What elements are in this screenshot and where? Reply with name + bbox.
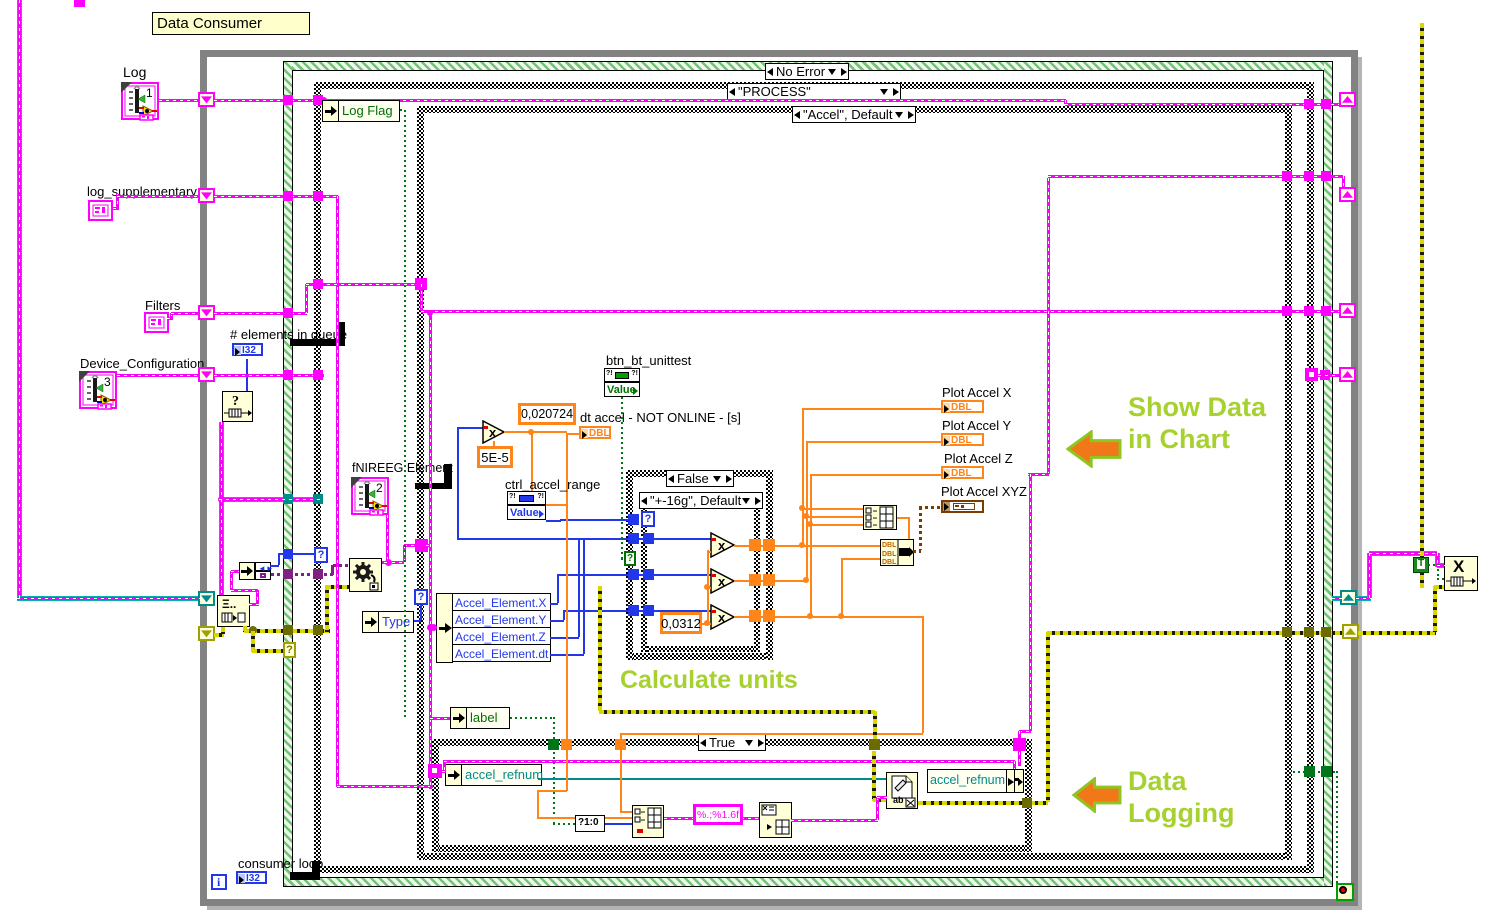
svg-text:x: x xyxy=(718,574,726,589)
svg-text:x: x xyxy=(489,425,497,440)
svg-text:DBL: DBL xyxy=(882,559,897,566)
svg-text:2: 2 xyxy=(376,481,383,495)
svg-text:DBL: DBL xyxy=(882,551,897,558)
svg-text:Ξ..: Ξ.. xyxy=(222,597,236,611)
svg-text:?: ? xyxy=(232,394,239,409)
svg-text:3: 3 xyxy=(104,375,111,389)
svg-text:ab: ab xyxy=(893,795,904,805)
svg-text:x: x xyxy=(718,538,726,553)
svg-text:1: 1 xyxy=(146,86,153,100)
svg-text:X: X xyxy=(1453,557,1465,576)
svg-text:DBL: DBL xyxy=(882,542,897,549)
svg-text:x: x xyxy=(718,610,726,625)
